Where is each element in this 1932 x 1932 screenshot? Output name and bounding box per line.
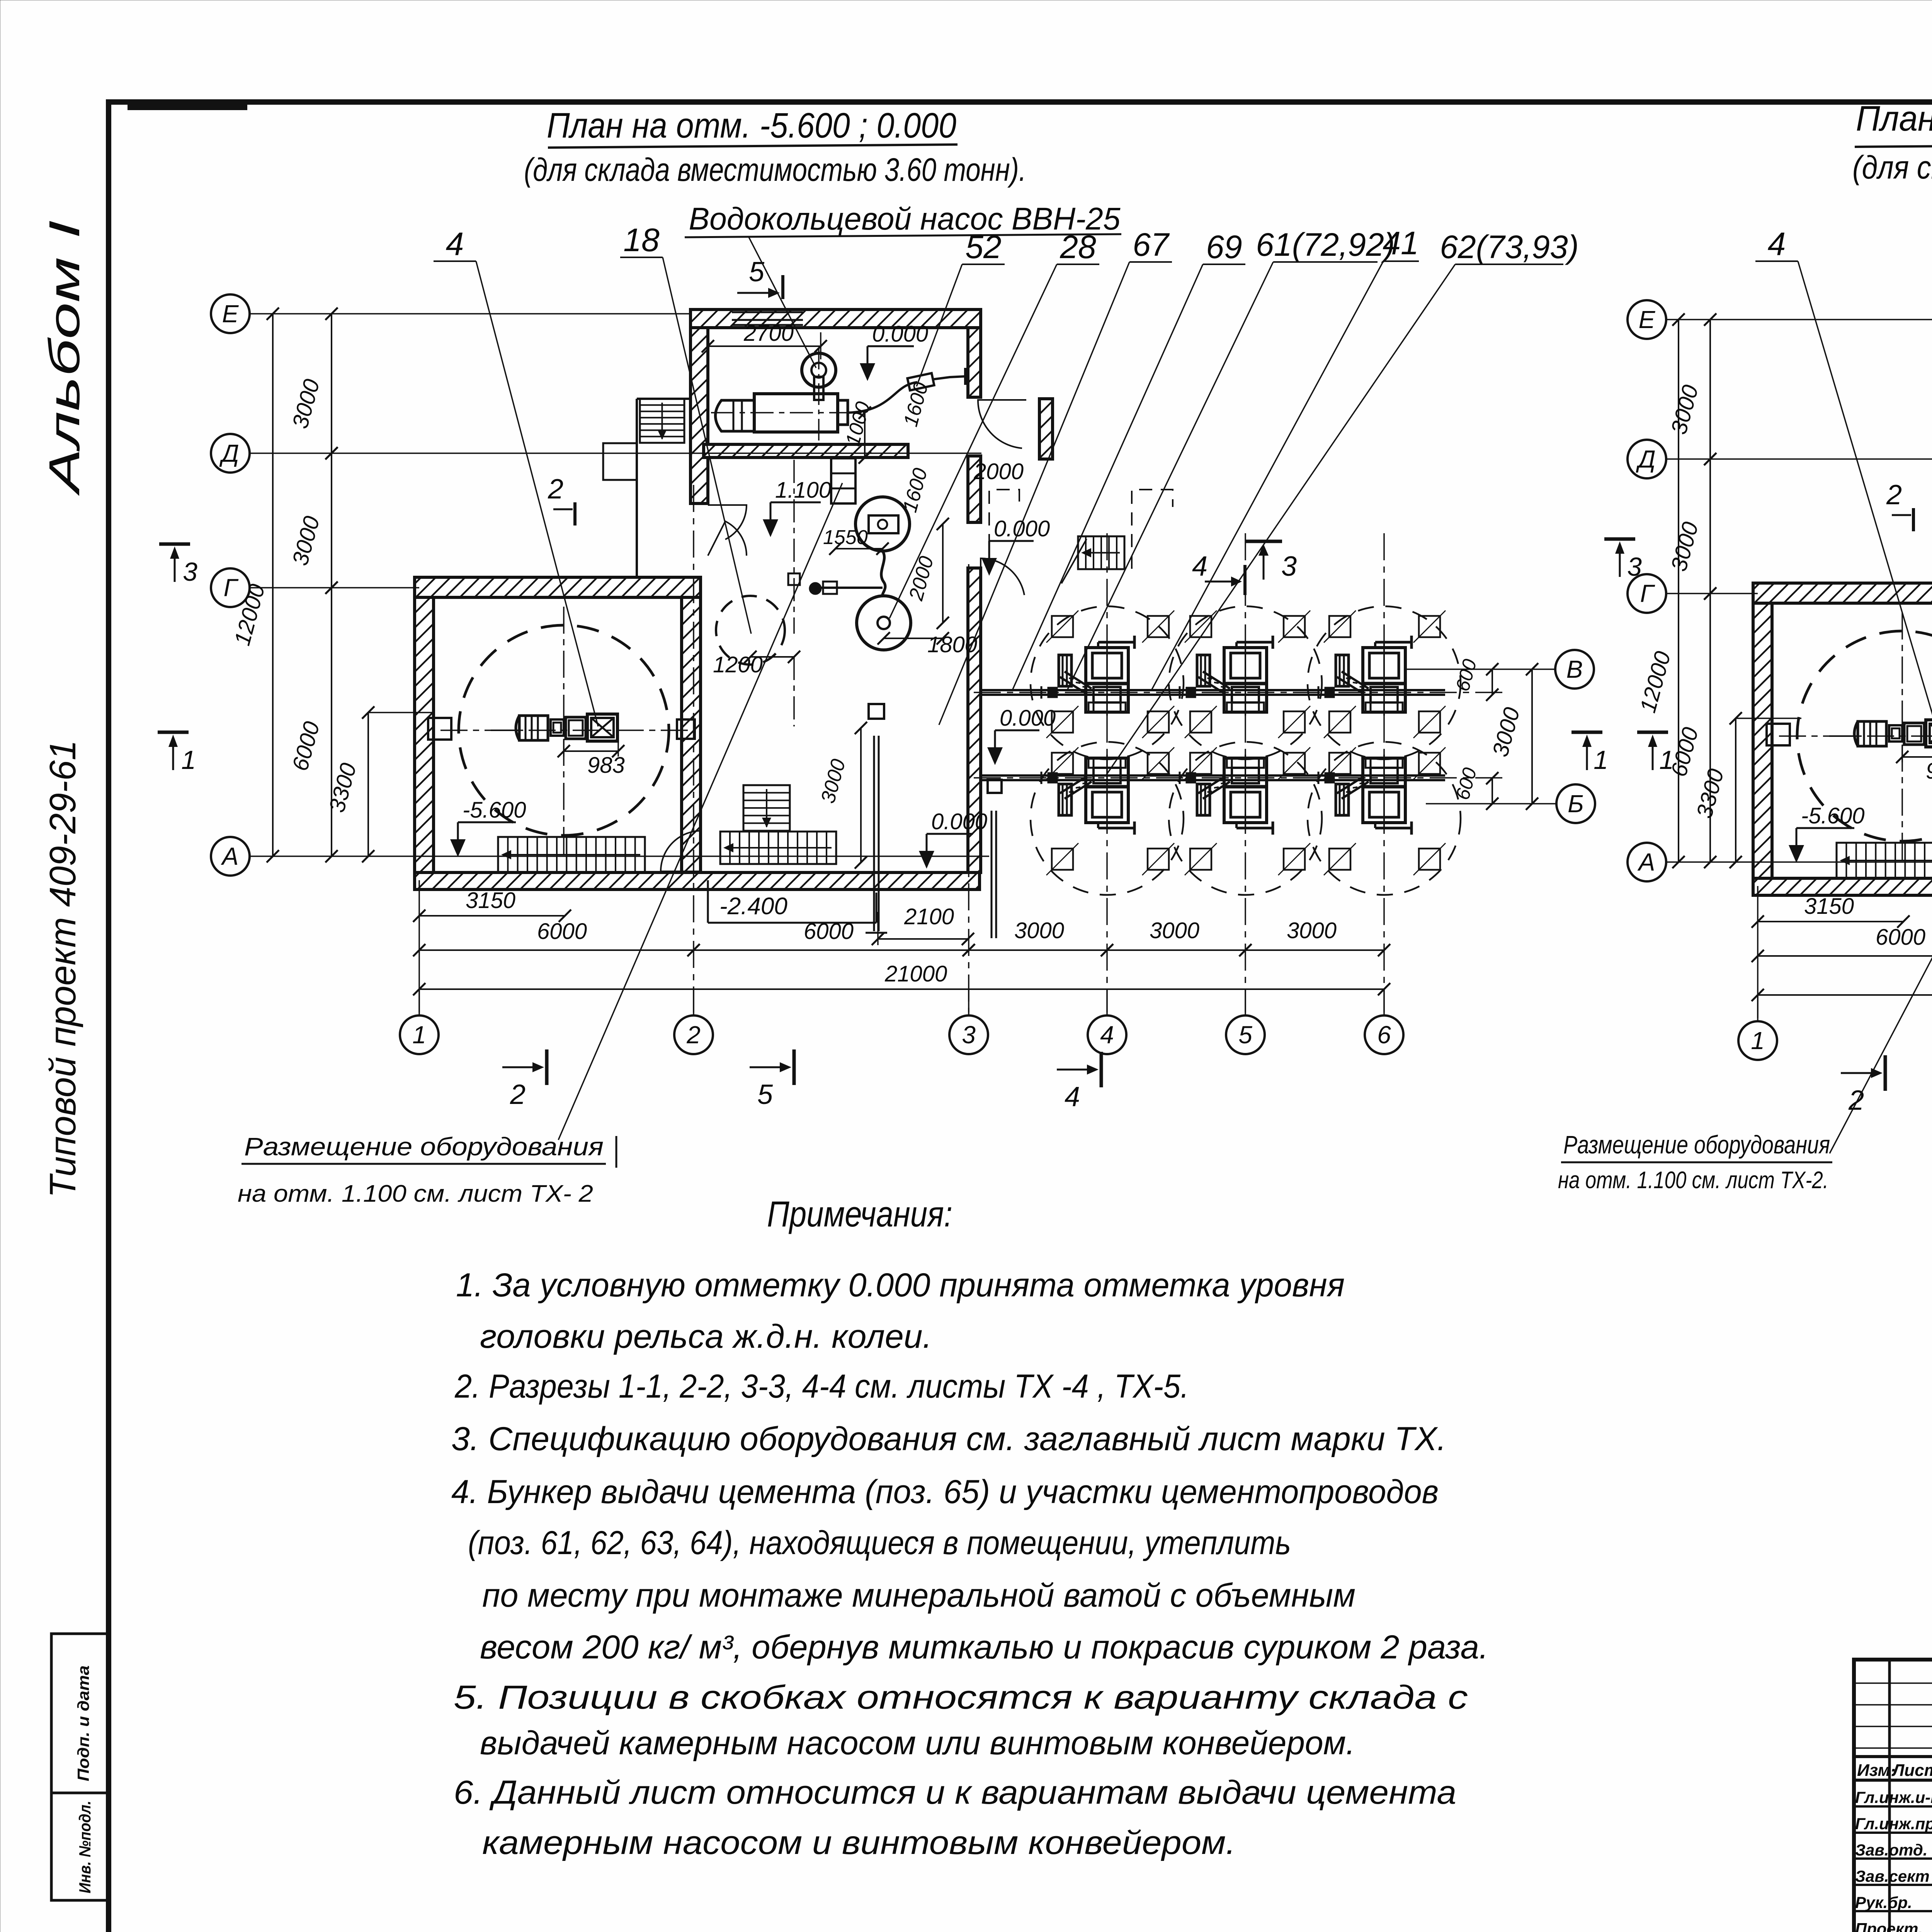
- svg-text:3. Спецификацию оборудования: 3. Спецификацию оборудования см. заглавн…: [451, 1420, 1446, 1458]
- svg-text:6000: 6000: [537, 919, 587, 944]
- svg-text:1.100: 1.100: [775, 478, 831, 503]
- left plan: grid circle Д: [211, 434, 250, 473]
- svg-text:3150: 3150: [1804, 894, 1854, 919]
- svg-text:Подп. и дата: Подп. и дата: [74, 1665, 92, 1781]
- svg-text:2: 2: [1886, 480, 1902, 510]
- svg-text:3000: 3000: [1014, 918, 1064, 943]
- hoist rect below pump room: [831, 458, 855, 503]
- -2.400 pit notch: [707, 880, 709, 923]
- pump room walls: [690, 310, 981, 328]
- left plan: outdoor stair: [1078, 536, 1124, 569]
- svg-text:А: А: [1637, 848, 1655, 876]
- svg-text:6000: 6000: [804, 919, 854, 944]
- svg-text:Е: Е: [222, 300, 239, 328]
- left plan: screw pump unit row В x=2865: [1086, 648, 1128, 712]
- left plan: column circle 3: [949, 1015, 988, 1054]
- svg-text:Изм·: Изм·: [1857, 1761, 1896, 1780]
- svg-text:Примечания:: Примечания:: [767, 1194, 952, 1234]
- margin stamp boxes bottom-left: [51, 1634, 109, 1793]
- left plan: screw pump unit row Б x=3223: [1224, 758, 1267, 823]
- svg-text:41: 41: [1383, 225, 1418, 261]
- right plan: grid circle Е: [1628, 300, 1666, 339]
- svg-text:18: 18: [623, 222, 660, 258]
- left plan: grid circle Б: [1556, 784, 1595, 823]
- svg-text:3: 3: [183, 557, 197, 587]
- left plan: section 1 mark: [158, 731, 189, 734]
- left plan: screw pump unit row В x=3582: [1363, 648, 1405, 712]
- svg-text:4: 4: [446, 226, 464, 262]
- svg-text:1. За условную отметку 0.00: 1. За условную отметку 0.000 принята отм…: [456, 1267, 1345, 1304]
- svg-text:Г: Г: [1640, 580, 1655, 607]
- svg-text:(для склада вместимостью 240: (для склада вместимостью 240 тонн): [1852, 149, 1932, 185]
- silo room walls: [415, 577, 701, 597]
- left plan: dashed clearance circle row В x=3582: [1308, 606, 1461, 759]
- svg-text:4: 4: [1065, 1082, 1080, 1112]
- svg-text:-5.600: -5.600: [463, 798, 526, 823]
- left plan: column circle 2: [674, 1015, 713, 1054]
- left plan: row В/Б circles and dims: [1406, 668, 1555, 670]
- svg-text:0.000: 0.000: [1000, 706, 1056, 731]
- svg-text:1: 1: [1751, 1027, 1765, 1054]
- svg-text:0.000: 0.000: [872, 321, 928, 347]
- dashed hopper circle: [716, 596, 785, 665]
- svg-text:на отм. 1.100 см. лист ТХ: на отм. 1.100 см. лист ТХ- 2: [238, 1180, 593, 1207]
- svg-text:-2.400: -2.400: [719, 893, 787, 920]
- svg-text:(поз. 61, 62, 63, 64), находя: (поз. 61, 62, 63, 64), находящиеся в пом…: [468, 1524, 1291, 1561]
- vacuum pump ВВН-25: motor: [716, 400, 755, 431]
- svg-text:2700: 2700: [743, 321, 794, 346]
- left plan: dashed clearance circle row Б x=2865: [1031, 742, 1184, 895]
- left plan: screw pump unit row Б x=2865: [1086, 758, 1128, 823]
- svg-text:67: 67: [1133, 226, 1170, 263]
- right plan: row grid lines: [1666, 319, 1932, 320]
- dim 983: [564, 750, 618, 752]
- left plan: column grid lines: [418, 880, 420, 1012]
- left plan: row grid lines: [250, 313, 692, 315]
- right plan: column circle 1: [1738, 1021, 1777, 1060]
- svg-text:0.000: 0.000: [994, 516, 1050, 541]
- left plan: rail clearance dashed brackets: [989, 490, 1019, 569]
- left plan: outdoor pipe row В: [981, 689, 1445, 691]
- svg-text:62(73,93): 62(73,93): [1440, 229, 1579, 265]
- door arcs right wall: [978, 400, 1026, 448]
- svg-text:План на отм. -5.600 ; 0.000: План на отм. -5.600 ; 0.000: [547, 106, 956, 145]
- svg-text:6. Данный лист относится: 6. Данный лист относится и к вариантам в…: [454, 1774, 1456, 1811]
- staircase upper-left (down to -5.600): [640, 399, 684, 443]
- svg-text:52: 52: [965, 229, 1001, 265]
- right plan building (translated copy): [1753, 315, 1932, 951]
- svg-text:Д: Д: [1636, 445, 1655, 473]
- header band lines: [1854, 1755, 1932, 1758]
- svg-text:1: 1: [412, 1021, 426, 1049]
- left plan: column circle 5: [1226, 1015, 1265, 1054]
- svg-text:Типовой проект 409-29-61: Типовой проект 409-29-61: [42, 740, 83, 1198]
- svg-text:2: 2: [1848, 1085, 1864, 1116]
- discharge bunker outdoor: [985, 766, 1005, 779]
- svg-text:Г: Г: [224, 574, 239, 602]
- darkened scan corner top-left: [128, 100, 247, 110]
- left plan: column circle 6: [1365, 1015, 1403, 1054]
- right plan: column grid lines: [1757, 886, 1759, 1018]
- silo pump unit: coupling: [551, 719, 564, 736]
- lower circle unit (screw pump): [857, 596, 911, 650]
- right plan: vertical dim chain: [1678, 320, 1679, 862]
- svg-text:Б: Б: [1568, 790, 1584, 818]
- left plan: total dim 21000: [419, 988, 1384, 990]
- svg-text:4: 4: [1768, 226, 1786, 262]
- svg-text:4: 4: [1192, 551, 1207, 582]
- svg-text:2100: 2100: [904, 904, 954, 929]
- svg-text:Размещение оборудования: Размещение оборудования: [244, 1132, 604, 1161]
- bottom stairs right (to pump hall): [720, 832, 836, 864]
- svg-text:Д: Д: [219, 439, 239, 467]
- right plan: grid circle А: [1628, 843, 1666, 881]
- silo pump unit: motor: [519, 716, 548, 740]
- svg-text:0.000: 0.000: [931, 809, 987, 834]
- svg-text:Зав.отд.: Зав.отд.: [1855, 1841, 1927, 1859]
- left plan: column circle 4: [1088, 1015, 1126, 1054]
- silo axes: [440, 730, 692, 731]
- left plan: outdoor pipe row Б: [981, 774, 1445, 777]
- vacuum pump axis: [711, 412, 862, 413]
- axis dash-dot x=1942: [793, 460, 795, 634]
- svg-text:983: 983: [587, 753, 625, 778]
- svg-text:6000: 6000: [1876, 925, 1925, 950]
- svg-text:1200: 1200: [713, 652, 763, 677]
- svg-text:6: 6: [1377, 1021, 1391, 1049]
- left plan: grid circle Г: [211, 568, 250, 607]
- svg-text:2. Разрезы 1-1, 2-2, 3-3,: 2. Разрезы 1-1, 2-2, 3-3, 4-4 см. листы …: [454, 1368, 1189, 1405]
- door arc bottom: [661, 831, 701, 871]
- silo pump unit: pump body: [566, 717, 586, 739]
- svg-text:3: 3: [1627, 552, 1642, 582]
- svg-text:61(72,92): 61(72,92): [1256, 226, 1395, 263]
- svg-text:2: 2: [548, 474, 563, 505]
- silo pump unit: discharge box: [587, 714, 617, 741]
- left plan: grid circle В: [1555, 650, 1594, 689]
- svg-text:21000: 21000: [884, 961, 947, 986]
- junction dot and pipe: [810, 583, 821, 594]
- svg-text:2: 2: [510, 1079, 526, 1110]
- svg-text:69: 69: [1206, 229, 1242, 265]
- svg-text:выдачей камерным насосом: выдачей камерным насосом или винтовым ко…: [480, 1725, 1355, 1762]
- svg-text:Зав.сект: Зав.сект: [1855, 1867, 1930, 1885]
- svg-text:28: 28: [1060, 229, 1096, 265]
- left plan: dashed clearance circle row В x=2865: [1031, 606, 1184, 759]
- left plan: grid circle А: [211, 837, 250, 876]
- svg-text:3000: 3000: [1287, 918, 1337, 943]
- svg-text:Инв. №подл.: Инв. №подл.: [76, 1801, 94, 1893]
- vacuum pump ВВН-25: flange: [838, 400, 848, 425]
- wall sleeves at silo axis: [428, 718, 451, 740]
- svg-text:Водокольцевой насос ВВН-25: Водокольцевой насос ВВН-25: [689, 201, 1121, 236]
- filter circle unit: [855, 497, 910, 551]
- svg-text:5: 5: [749, 257, 765, 287]
- left plan: dashed clearance circle row Б x=3582: [1308, 742, 1461, 895]
- svg-text:головки рельса ж.д.н. колеи: головки рельса ж.д.н. колеи.: [480, 1318, 932, 1355]
- vacuum pump ВВН-25: body: [754, 394, 838, 432]
- svg-text:Е: Е: [1639, 306, 1656, 333]
- svg-text:(для склада вместимостью 3.6: (для склада вместимостью 3.60 тонн).: [524, 151, 1026, 188]
- left plan: section 3 mark: [159, 543, 190, 546]
- hose from pump to wall: [848, 382, 917, 413]
- window opening in pump room top wall: [732, 311, 803, 313]
- revision area thin rows: [1854, 1682, 1932, 1684]
- left plan: column circle 1: [400, 1015, 439, 1054]
- svg-text:В: В: [1566, 655, 1583, 683]
- svg-text:5: 5: [757, 1079, 773, 1110]
- svg-text:Размещение оборудования: Размещение оборудования: [1563, 1130, 1830, 1159]
- left plan: column circles: [418, 989, 420, 1015]
- right plan: bottom section marks: [1841, 1072, 1871, 1074]
- left plan: bottom section marks: [502, 1066, 532, 1068]
- left plan: screw pump unit row В x=3223: [1224, 648, 1267, 712]
- stair lobby upper-left: [636, 399, 638, 577]
- svg-text:весом 200 кг/ м³, обернув: весом 200 кг/ м³, обернув миткалью и пок…: [480, 1629, 1488, 1666]
- svg-text:Лист: Лист: [1891, 1761, 1932, 1780]
- right plan: bottom dim chain: [1758, 955, 1932, 957]
- left plan: screw pump unit row Б x=3582: [1363, 758, 1405, 823]
- left plan: dashed clearance circle row В x=3223: [1169, 606, 1322, 759]
- svg-text:1800: 1800: [927, 632, 977, 657]
- left plan: dashed clearance circle row Б x=3223: [1169, 742, 1322, 895]
- left plan: foundation squares: [1052, 616, 1073, 637]
- double door arcs hall left wall: [708, 505, 747, 539]
- svg-text:План на отм. -5.600; 0.000: План на отм. -5.600; 0.000: [1856, 99, 1932, 138]
- svg-text:3: 3: [962, 1021, 976, 1049]
- svg-text:А: А: [221, 842, 239, 870]
- left plan: vertical dim chain: [272, 314, 274, 856]
- title block verticals left section: [1888, 1660, 1891, 1932]
- title block outer: [1854, 1660, 1932, 1932]
- cyclone bunker stack: [866, 689, 885, 703]
- vacuum pump port circle: [802, 353, 836, 387]
- signature rows: [1854, 1805, 1932, 1808]
- svg-text:Рук.бр.: Рук.бр.: [1855, 1893, 1912, 1912]
- svg-text:Гл.инж.и-та: Гл.инж.и-та: [1855, 1788, 1932, 1806]
- svg-text:Альбом I: Альбом I: [40, 220, 88, 496]
- small mid stairs: [743, 785, 790, 831]
- svg-text:1: 1: [1594, 745, 1608, 775]
- svg-text:4. Бункер выдачи цемента (п: 4. Бункер выдачи цемента (поз. 65) и уча…: [451, 1473, 1439, 1510]
- left plan: grid circle Е: [211, 294, 250, 333]
- svg-text:2000: 2000: [973, 459, 1024, 484]
- railway door jamb wall: [1039, 399, 1053, 459]
- svg-text:3150: 3150: [466, 888, 515, 913]
- right plan: grid circle Г: [1628, 574, 1666, 613]
- svg-text:Гл.инж.пр.: Гл.инж.пр.: [1855, 1815, 1932, 1833]
- right plan: total dim 18000: [1758, 994, 1932, 996]
- svg-text:1: 1: [181, 745, 196, 775]
- silo dashed circle (cement silo outline): [459, 625, 669, 835]
- svg-text:5: 5: [1238, 1021, 1252, 1049]
- svg-text:по месту при монтаже мин: по месту при монтаже минеральной ватой с…: [482, 1577, 1355, 1614]
- section 1-1 marks between plans: [1571, 731, 1602, 734]
- svg-text:3: 3: [1281, 551, 1297, 582]
- svg-text:на отм. 1.100 см. лист ТХ: на отм. 1.100 см. лист ТХ-2.: [1558, 1167, 1828, 1194]
- right plan: grid circle Д: [1628, 440, 1666, 478]
- svg-text:камерным насосом и винтов: камерным насосом и винтовым конвейером.: [482, 1824, 1236, 1861]
- svg-text:2: 2: [686, 1021, 701, 1049]
- left plan: bottom dim chain: [419, 949, 694, 951]
- svg-text:1550: 1550: [823, 526, 868, 549]
- svg-text:3000: 3000: [1150, 918, 1199, 943]
- svg-text:4: 4: [1100, 1021, 1114, 1049]
- svg-text:5. Позиции в скобках отно: 5. Позиции в скобках относятся к вариант…: [454, 1679, 1468, 1716]
- right plan: column circles: [1757, 995, 1759, 1021]
- bottom stairs inside silo room: [498, 837, 645, 872]
- right plan: section 3 mark: [1604, 537, 1635, 541]
- svg-text:Проект.: Проект.: [1855, 1920, 1923, 1932]
